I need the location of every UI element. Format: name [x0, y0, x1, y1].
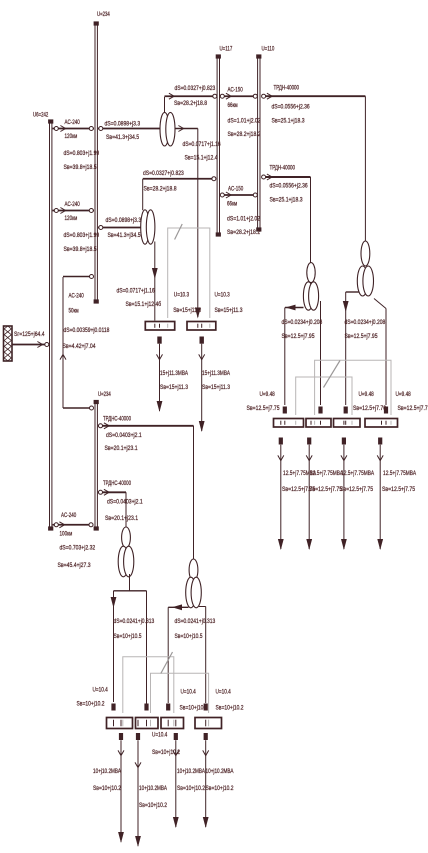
bus U=110 110kV — [256, 54, 261, 231]
wire TR-C split run — [114, 590, 147, 592]
label load B2b s — [139, 802, 167, 809]
label TRDN2 flow — [270, 197, 303, 204]
label AC-240 c2 — [65, 201, 81, 208]
label load B4b s — [206, 785, 234, 792]
label 66km c2 — [227, 201, 238, 208]
label load M4 s — [382, 486, 415, 493]
svg-text:Sв=39.8+j18.5: Sв=39.8+j18.5 — [64, 246, 97, 253]
label LV2 U — [215, 292, 231, 299]
svg-text:Sв=25.1+j18.3: Sв=25.1+j18.3 — [270, 197, 303, 204]
svg-text:Sв=10+j10.2: Sв=10+j10.2 — [206, 785, 234, 792]
load arrow M4 — [377, 438, 383, 551]
wire line AC-150 66km circuit1 — [220, 93, 257, 99]
svg-text:Sв=12.5+j7.75: Sв=12.5+j7.75 — [309, 486, 342, 493]
wire TR-D out right — [199, 606, 206, 608]
label T1 LV losses — [183, 141, 221, 148]
bus LV1 U=10.3 — [145, 322, 174, 331]
label B2b U below — [152, 732, 168, 739]
svg-text:Sв=10+j10.2: Sв=10+j10.2 — [177, 785, 205, 792]
label LV2 S — [215, 307, 243, 314]
svg-text:Sв=10+j10.2: Sв=10+j10.2 — [180, 705, 208, 712]
label 50km — [69, 308, 80, 315]
load arrow B4b — [203, 733, 209, 828]
label TRDN2 — [270, 165, 296, 172]
svg-text:Sв=15+j11.3: Sв=15+j11.3 — [202, 384, 230, 391]
svg-text:Sв=10+j10.2: Sв=10+j10.2 — [93, 785, 121, 792]
label TR-B flow — [345, 333, 378, 340]
label flow c2 — [64, 246, 97, 253]
svg-text:Sв=10+j10.2: Sв=10+j10.2 — [139, 802, 167, 809]
svg-text:Sв=12.5+j7.70: Sв=12.5+j7.70 — [353, 405, 386, 412]
bus B1b U=10.4 — [107, 718, 133, 729]
svg-text:Sв=15+j11.3: Sв=15+j11.3 — [215, 307, 243, 314]
label load LV2 mva — [202, 370, 230, 377]
svg-text:AC-240: AC-240 — [69, 293, 85, 300]
wire T2 HV riser — [142, 179, 144, 210]
node label U6=242 — [33, 112, 49, 119]
wire TRDN2 drop to TR-A — [310, 177, 312, 263]
svg-text:dS=0.0327+j0.823: dS=0.0327+j0.823 — [175, 85, 216, 92]
svg-text:Sв=15+j11.3: Sв=15+j11.3 — [160, 384, 188, 391]
svg-text:Sв=28.2+j18.2: Sв=28.2+j18.2 — [227, 229, 260, 236]
svg-text:U=10.4: U=10.4 — [93, 687, 109, 694]
wire TR-D drop right to bus B4b — [205, 607, 207, 704]
gray jumper LV1-LV2 — [168, 224, 210, 318]
wire TR-A drop right to bus M2 — [320, 301, 322, 405]
svg-text:dS=0.0234+j0.208: dS=0.0234+j0.208 — [282, 319, 323, 326]
svg-text:AC-240: AC-240 — [65, 119, 81, 126]
label load LV1 mva — [160, 370, 188, 377]
svg-text:U=9.48: U=9.48 — [260, 391, 276, 398]
gray jumper B1b-B3b — [123, 657, 174, 713]
wire T2 110kV to bus U=117 — [143, 177, 216, 181]
wire TR-C drop right to bus B2b — [146, 591, 148, 707]
node square M3 feeder — [344, 407, 348, 414]
bus M1 U=9.48 — [274, 419, 304, 428]
label TRDN1 losses — [272, 104, 310, 111]
label B1b S — [77, 701, 105, 708]
label B1b U — [93, 687, 109, 694]
label TR-C losses — [114, 618, 155, 625]
node label U=117 — [220, 46, 233, 53]
label M4 S — [398, 405, 428, 412]
wire T1 110kV to bus U=117 — [165, 93, 217, 99]
label M4 U — [396, 391, 412, 398]
svg-text:dS=0.803+j1.99: dS=0.803+j1.99 — [64, 150, 100, 157]
wire line AC-150 66km circuit2 — [220, 192, 257, 198]
svg-text:Sв=12.5+j7.75: Sв=12.5+j7.75 — [398, 405, 428, 412]
label AC-240 c1 — [65, 119, 81, 126]
label M3 U — [359, 391, 375, 398]
node label U=110 — [262, 46, 275, 53]
svg-text:dS=0.0898+j3.3: dS=0.0898+j3.3 — [105, 121, 141, 128]
label M1 S — [247, 405, 280, 412]
label AC-240 50km — [69, 293, 85, 300]
label load B2b mva — [139, 785, 167, 792]
svg-text:120км: 120км — [65, 215, 78, 222]
wire bus U=234 to T2 — [98, 226, 141, 230]
label B3b U — [181, 689, 197, 696]
label branch T1 losses — [105, 121, 141, 128]
label branch T1 flow — [106, 134, 139, 141]
svg-text:Sв=45.4+j27.3: Sв=45.4+j27.3 — [58, 562, 91, 569]
svg-text:ТРДН-40000: ТРДН-40000 — [270, 165, 296, 172]
svg-text:AC-150: AC-150 — [228, 87, 244, 94]
label TRDNS2 — [103, 480, 131, 487]
svg-text:Sв=28.2+j18.2: Sв=28.2+j18.2 — [228, 131, 261, 138]
wire T1 LV drop to bus LV2 — [195, 129, 201, 319]
svg-text:Sв=12.5+j7.95: Sв=12.5+j7.95 — [282, 333, 315, 340]
wire TR-B drop left to bus M3 — [343, 292, 349, 405]
wire line AC-240 50km vertical — [60, 277, 66, 408]
label flow c1 — [64, 164, 97, 171]
bus B2b U=10.4 — [136, 718, 159, 729]
generator G1 output label — [14, 331, 45, 338]
svg-text:ТРДНС-40000: ТРДНС-40000 — [103, 480, 131, 487]
load arrow LV2 — [199, 337, 205, 433]
label losses c2 — [64, 232, 100, 239]
node square M1 feeder — [283, 407, 287, 414]
wire TRDNS-40000 no2 run — [98, 489, 126, 495]
label T2 110 losses — [143, 170, 184, 177]
wire TR-C drop left to bus B1b — [111, 591, 117, 702]
svg-text:dS=1.01+j2.02: dS=1.01+j2.02 — [228, 118, 261, 125]
label AC-240 100km — [61, 512, 77, 519]
svg-text:dS=0.803+j1.99: dS=0.803+j1.99 — [64, 232, 100, 239]
wire TRDN-40000 no2 run — [262, 174, 311, 180]
gray switch slash bottom — [161, 652, 173, 674]
node label lower U=234 — [98, 391, 111, 398]
svg-text:10+j10.2МВА: 10+j10.2МВА — [206, 768, 234, 775]
svg-text:dS=0.0241+j0.313: dS=0.0241+j0.313 — [175, 618, 216, 625]
label branch T2 flow — [108, 232, 141, 239]
svg-text:dS=0.0241+j0.313: dS=0.0241+j0.313 — [114, 618, 155, 625]
svg-text:dS=0.0717+j1.16: dS=0.0717+j1.16 — [183, 141, 221, 148]
svg-text:66км: 66км — [228, 102, 239, 109]
svg-text:U=9.48: U=9.48 — [396, 391, 412, 398]
label AC-150 c1 flow — [228, 131, 261, 138]
label 50km losses — [64, 327, 110, 334]
node square B3b feeder — [166, 704, 170, 711]
load arrow M2 — [306, 438, 312, 551]
wire TRDNS-40000 no1 run — [98, 423, 194, 429]
label TRDN2 losses — [270, 183, 308, 190]
label T2 LV flow — [126, 300, 162, 308]
svg-text:15+j11.3МВА: 15+j11.3МВА — [160, 370, 188, 377]
bus U=234 (top 220kV substation) — [94, 21, 99, 303]
label load M2 mva — [310, 470, 344, 477]
label T1 LV flow — [185, 155, 218, 162]
wire bus U=234 to T1 — [98, 127, 161, 131]
label 66km c1 — [228, 102, 239, 109]
label losses c1 — [64, 150, 100, 157]
node square B1b feeder — [111, 704, 115, 711]
label B4b U — [216, 689, 232, 696]
svg-text:dS=1.01+j2.02: dS=1.01+j2.02 — [227, 216, 260, 223]
gray jumper M2-M4 — [315, 360, 391, 415]
svg-text:U=117: U=117 — [220, 46, 233, 53]
transformer TR-C — [118, 527, 134, 577]
node square B4b feeder — [204, 704, 208, 711]
label TR-A flow — [282, 333, 315, 340]
wire 50km top link — [63, 275, 94, 279]
label LV1 U — [174, 292, 190, 299]
svg-text:Sв=4.42+j7.04: Sв=4.42+j7.04 — [63, 343, 96, 350]
svg-text:dS=0.0556+j2.36: dS=0.0556+j2.36 — [270, 183, 308, 190]
svg-text:Sг=125+j64.4: Sг=125+j64.4 — [14, 331, 45, 338]
label 100km losses — [60, 545, 96, 552]
label AC-150 c2 losses — [227, 216, 260, 223]
svg-text:50км: 50км — [69, 308, 80, 315]
transformer T2 — [141, 210, 155, 244]
svg-text:dS=0.0898+j3.3: dS=0.0898+j3.3 — [106, 217, 142, 224]
label M1 U — [260, 391, 276, 398]
label TR-B losses — [345, 319, 386, 326]
wire T1 LV run — [175, 126, 198, 132]
label TRDN1 — [274, 85, 300, 92]
svg-text:dS=0.0403+j2.1: dS=0.0403+j2.1 — [106, 432, 142, 439]
svg-text:12.5+j7.75МВА: 12.5+j7.75МВА — [383, 470, 417, 477]
svg-text:Sв=10+j10.2: Sв=10+j10.2 — [216, 705, 244, 712]
label 120km c2 — [65, 215, 78, 222]
svg-text:Sв=28.2+j18.8: Sв=28.2+j18.8 — [174, 100, 207, 107]
label TR-D flow — [175, 633, 203, 640]
svg-text:ТРДНС-40000: ТРДНС-40000 — [103, 416, 131, 423]
label AC-150 c1 losses — [228, 118, 261, 125]
label TRDNS2 flow — [105, 515, 138, 522]
node square M4 feeder — [384, 407, 388, 414]
load arrow B1b — [118, 733, 124, 843]
svg-text:100км: 100км — [60, 531, 73, 538]
gray jumper M1-M3 — [296, 377, 352, 415]
label TRDNS1 losses — [106, 432, 142, 439]
bus U=117 110kV — [216, 54, 221, 236]
label load B1b mva — [93, 768, 121, 775]
svg-text:120км: 120км — [65, 133, 78, 140]
bus B4b U=10.4 — [195, 718, 222, 729]
label T2 LV losses — [117, 288, 155, 295]
label B2b S below — [152, 749, 180, 756]
label 100km — [60, 531, 73, 538]
svg-text:Sв=12.5+j7.75: Sв=12.5+j7.75 — [382, 486, 415, 493]
svg-text:15+j11.3МВА: 15+j11.3МВА — [202, 370, 230, 377]
bus LV2 U=10.3 — [187, 322, 216, 331]
label TRDNS1 — [103, 416, 131, 423]
svg-text:Sв=41.3+j34.5: Sв=41.3+j34.5 — [108, 232, 141, 239]
svg-text:AC-240: AC-240 — [65, 201, 81, 208]
label load B1b s — [93, 785, 121, 792]
bus M2 U=9.48 — [306, 419, 331, 428]
label AC-150 c2 — [228, 186, 244, 193]
wire TRDN1 drop to TR-B — [364, 96, 366, 241]
svg-text:Sв=25.1+j18.3: Sв=25.1+j18.3 — [272, 118, 305, 125]
load arrow M1 — [278, 438, 284, 551]
wire T1 HV riser — [164, 97, 166, 113]
wire TR-A out left — [285, 305, 304, 311]
svg-text:Sв=20.1+j23.1: Sв=20.1+j23.1 — [105, 445, 138, 452]
svg-text:dS=0.703+j2.32: dS=0.703+j2.32 — [60, 545, 96, 552]
wire TR-C stub — [129, 574, 131, 591]
svg-text:U=9.48: U=9.48 — [359, 391, 375, 398]
wire T2 LV drop to bus LV1 — [152, 242, 158, 321]
svg-text:Sв=41.3+j34.5: Sв=41.3+j34.5 — [106, 134, 139, 141]
transformer TR-A — [303, 263, 318, 311]
transformer TR-D — [186, 559, 202, 608]
svg-text:Sв=15.1+j12.4: Sв=15.1+j12.4 — [185, 155, 218, 162]
label AC-150 c1 — [228, 87, 244, 94]
svg-text:Sв=10+j10.5: Sв=10+j10.5 — [175, 633, 203, 640]
wire TRDN-40000 no1 run — [262, 93, 366, 99]
label 120km c1 — [65, 133, 78, 140]
wire TRDNS2 drop to TR-C — [125, 492, 127, 527]
label T1 110 losses — [175, 85, 216, 92]
svg-text:U=234: U=234 — [98, 391, 111, 398]
label load B4b mva — [206, 768, 234, 775]
label TR-C flow — [114, 633, 142, 640]
svg-text:10+j10.2МВА: 10+j10.2МВА — [93, 768, 121, 775]
label load M3 s — [340, 486, 373, 493]
node square B2b feeder — [144, 704, 148, 711]
label M3 S — [353, 405, 386, 412]
svg-text:66км: 66км — [227, 201, 238, 208]
svg-text:12.5+j7.75МВА: 12.5+j7.75МВА — [341, 470, 375, 477]
wire line AC-240 120km circuit2 — [53, 208, 95, 214]
generator G1 symbol — [4, 326, 13, 361]
label load M1 s — [282, 486, 315, 493]
svg-text:10+j10.2МВА: 10+j10.2МВА — [177, 768, 205, 775]
wire TR-A drop left to bus M1 — [284, 308, 286, 406]
bus U6=242 (slack 220kV) — [48, 119, 53, 530]
gray switch slash mid — [324, 361, 341, 388]
label load LV2 s — [202, 384, 230, 391]
svg-text:Sв=10+j10.2: Sв=10+j10.2 — [77, 701, 105, 708]
wire TR-B out left — [346, 291, 359, 293]
svg-text:U=10.3: U=10.3 — [215, 292, 231, 299]
svg-text:Sв=12.5+j7.95: Sв=12.5+j7.95 — [345, 333, 378, 340]
label LV1 S — [173, 307, 201, 314]
bus B3b U=10.4 — [161, 718, 184, 729]
label load M2 s — [309, 486, 342, 493]
svg-text:Sв=10+j10.5: Sв=10+j10.5 — [114, 633, 142, 640]
gray jumper B2b-B4b — [151, 673, 209, 713]
load arrow B3b — [173, 733, 179, 828]
bus M4 U=9.48 — [365, 419, 398, 428]
load arrow LV1 — [157, 337, 163, 413]
wire TRDNS1 drop to TR-D — [193, 426, 195, 560]
label B3b S — [180, 705, 208, 712]
label TRDNS1 flow — [105, 445, 138, 452]
label TRDNS2 losses — [107, 499, 143, 506]
svg-text:Sв=12.5+j7.75: Sв=12.5+j7.75 — [247, 405, 280, 412]
transformer TR-B — [357, 241, 373, 296]
svg-text:dS=0.0717+j1.16: dS=0.0717+j1.16 — [117, 288, 155, 295]
svg-text:U=10.4: U=10.4 — [181, 689, 197, 696]
svg-text:U=234: U=234 — [97, 11, 110, 18]
svg-text:Sв=15.1+j12.4б: Sв=15.1+j12.4б — [126, 300, 162, 308]
label T1 110 flow — [174, 100, 207, 107]
transformer T1 — [160, 112, 175, 146]
wire generator to bus U6=242 — [12, 342, 49, 348]
label load M4 mva — [383, 470, 417, 477]
svg-text:U6=242: U6=242 — [33, 112, 49, 119]
svg-text:dS=0.00359+j0.0118: dS=0.00359+j0.0118 — [64, 327, 110, 334]
node label U=234 — [97, 11, 110, 18]
bus M3 U=9.48 — [334, 419, 361, 428]
label load LV1 s — [160, 384, 188, 391]
node square M2 feeder — [318, 407, 322, 414]
label branch T2 losses — [106, 217, 142, 224]
wire TR-B drop right to bus M4 — [385, 309, 387, 406]
label 100km flow — [58, 562, 91, 569]
label load M1 mva — [283, 470, 317, 477]
wire TR-D drop left to bus B3b — [167, 607, 169, 703]
label 50km flow — [63, 343, 96, 350]
label TR-A losses — [282, 319, 323, 326]
svg-text:10+j10.2МВА: 10+j10.2МВА — [139, 785, 167, 792]
svg-text:ТРДН-40000: ТРДН-40000 — [274, 85, 300, 92]
svg-text:Sв=15+j11.0: Sв=15+j11.0 — [173, 307, 201, 314]
svg-text:U=10.4: U=10.4 — [152, 732, 168, 739]
svg-text:dS=0.0327+j0.823: dS=0.0327+j0.823 — [143, 170, 184, 177]
svg-text:dS=0.0556+j2.36: dS=0.0556+j2.36 — [272, 104, 310, 111]
svg-text:U=10.3: U=10.3 — [174, 292, 190, 299]
label TRDN1 flow — [272, 118, 305, 125]
wire 50km bottom link — [63, 406, 94, 410]
wire line AC-240 100km — [53, 522, 94, 528]
svg-text:dS=0.0234+j0.208: dS=0.0234+j0.208 — [345, 319, 386, 326]
bus lower U=234 — [94, 400, 99, 531]
svg-text:U=10.4: U=10.4 — [216, 689, 232, 696]
svg-text:Sв=39.8+j18.5: Sв=39.8+j18.5 — [64, 164, 97, 171]
wire TR-D out left — [168, 604, 188, 610]
label TR-D losses — [175, 618, 216, 625]
label T2 110 flow — [144, 186, 177, 193]
svg-text:AC-150: AC-150 — [228, 186, 244, 193]
wire TR-B out right — [374, 299, 386, 309]
label load B3b s — [177, 785, 205, 792]
wire line AC-240 120km circuit1 — [53, 126, 95, 132]
label load B3b mva — [177, 768, 205, 775]
load arrow B2b — [135, 733, 141, 847]
load arrow M3 — [341, 438, 347, 551]
svg-text:Sв=28.2+j18.8: Sв=28.2+j18.8 — [144, 186, 177, 193]
label B4b S — [216, 705, 244, 712]
label AC-150 c2 flow — [227, 229, 260, 236]
svg-text:12.5+j7.75МВА: 12.5+j7.75МВА — [310, 470, 344, 477]
svg-text:dS=0.0403+j2.1: dS=0.0403+j2.1 — [107, 499, 143, 506]
svg-text:Sв=20.1+j23.1: Sв=20.1+j23.1 — [105, 515, 138, 522]
svg-text:Sв=12.5+j7.75: Sв=12.5+j7.75 — [340, 486, 373, 493]
svg-text:U=110: U=110 — [262, 46, 275, 53]
label load M3 mva — [341, 470, 375, 477]
svg-text:AC-240: AC-240 — [61, 512, 77, 519]
